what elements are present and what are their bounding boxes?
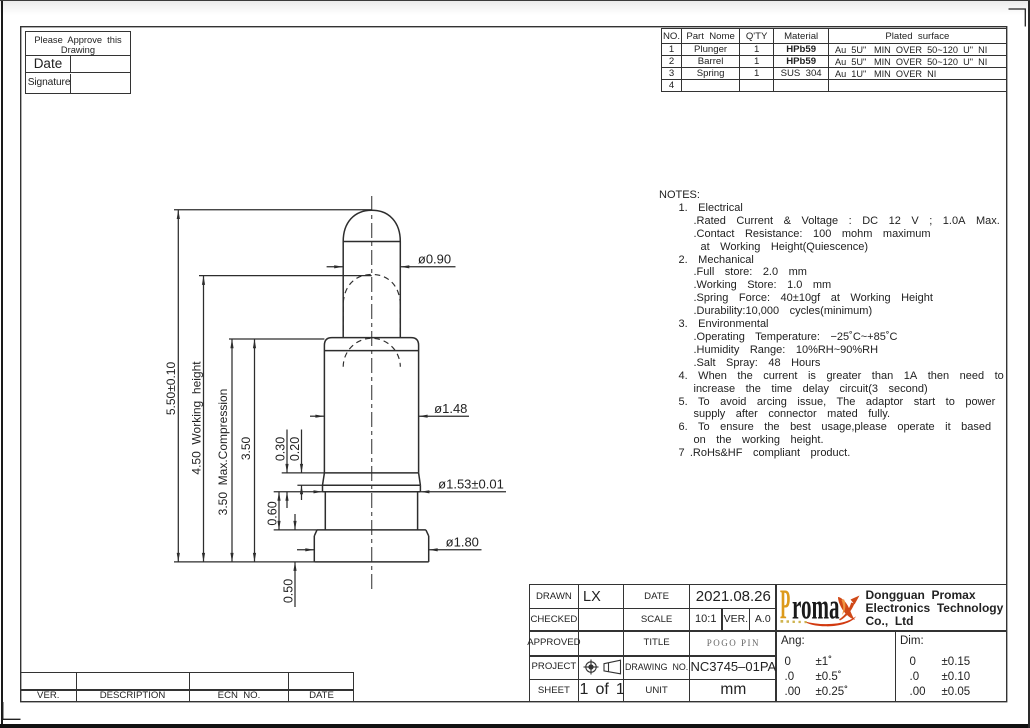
dia 1.48 leader right bbox=[419, 415, 469, 417]
arrow 5.50 bottom bbox=[177, 553, 180, 562]
lower body right side bbox=[417, 492, 419, 530]
arrow 0.50 down bbox=[293, 521, 296, 530]
arrow 0.60 down bbox=[277, 521, 280, 530]
extension line pin top bbox=[174, 209, 372, 211]
company name bbox=[866, 589, 1008, 628]
corner mark bottom-left bbox=[3, 702, 21, 719]
row labels bbox=[530, 585, 578, 607]
dim line 0.20 upper bbox=[301, 430, 303, 473]
svg-text:3.50 Max.Compression: 3.50 Max.Compression bbox=[216, 389, 230, 516]
revision strip (bottom-left) bbox=[20, 672, 354, 702]
dim line 0.60 bbox=[278, 492, 280, 530]
dim line 4.50 bbox=[203, 276, 205, 562]
arrow dia0.90 left-tip bbox=[400, 265, 409, 268]
barrel crimp line bbox=[324, 350, 418, 352]
dim line 0.30 upper bbox=[286, 430, 288, 473]
approve table (top-left) bbox=[25, 31, 132, 94]
dia 0.90 leader right bbox=[400, 266, 455, 268]
arrow dia0.90 right-tip bbox=[334, 265, 343, 268]
base flange bevel right bbox=[426, 530, 429, 536]
arrow 3.50mc top bbox=[230, 339, 233, 348]
extension line ring top bbox=[297, 484, 322, 486]
dim line 0.20 lower shaft bbox=[301, 485, 303, 500]
red swoosh X inner flame bbox=[842, 599, 846, 615]
plunger left side bbox=[342, 242, 344, 338]
svg-text:3.50: 3.50 bbox=[239, 436, 253, 460]
svg-text:0.20: 0.20 bbox=[288, 437, 302, 461]
svg-text:0.60: 0.60 bbox=[266, 501, 280, 525]
arrow 3.50 bottom bbox=[253, 553, 256, 562]
vertical centerline (dash-dot) bbox=[371, 196, 373, 591]
red swoosh X arrowhead bbox=[851, 596, 860, 605]
arrow dia1.48 right-tip bbox=[315, 415, 324, 418]
Dim tolerance cell bbox=[900, 635, 924, 647]
red swoosh X stroke B shaft bbox=[839, 603, 855, 621]
solder ring top line bbox=[323, 484, 421, 486]
svg-text:5.50±0.10: 5.50±0.10 bbox=[164, 362, 178, 416]
extension line baseline bbox=[174, 561, 314, 563]
arrow 0.30 down bbox=[285, 464, 288, 473]
svg-text:ø1.80: ø1.80 bbox=[446, 535, 479, 550]
plunger right side bbox=[399, 242, 401, 338]
plunger dome tip bbox=[343, 210, 400, 241]
arrow 0.20 down bbox=[300, 464, 303, 473]
arrow 4.50 bottom bbox=[202, 553, 205, 562]
solder ring taper left bbox=[323, 473, 325, 485]
svg-text:ø1.53±0.01: ø1.53±0.01 bbox=[438, 477, 504, 492]
arrow 4.50 top bbox=[202, 276, 205, 285]
Ang tolerance cell bbox=[781, 635, 805, 647]
dim line 3.50 bbox=[254, 339, 256, 562]
arrow dia1.80 left-tip bbox=[429, 548, 438, 551]
outer right edge bbox=[1028, 0, 1029, 728]
base flange right side bbox=[428, 536, 430, 562]
solder ring left edge bbox=[322, 485, 324, 492]
outer left edge bbox=[1, 0, 3, 728]
dim line 5.50 bbox=[177, 210, 179, 562]
barrel taper datum line bbox=[324, 472, 418, 474]
arrow dia1.48 left-tip bbox=[419, 415, 428, 418]
internal grid lines bbox=[578, 585, 579, 701]
plunger tip at max compression (hidden, dashed arc) bbox=[343, 338, 400, 367]
extension line barrel top bbox=[229, 338, 324, 340]
dim line 3.50 max compression bbox=[231, 339, 233, 562]
svg-text:0.30: 0.30 bbox=[274, 437, 288, 461]
arrow 0.30 up bbox=[285, 492, 288, 501]
solder ring taper right bbox=[419, 473, 421, 485]
arrow dia1.80 right-tip bbox=[305, 548, 314, 551]
dim line 0.30 lower shaft bbox=[286, 492, 288, 508]
svg-text:4.50 Working height: 4.50 Working height bbox=[189, 361, 203, 475]
dia 0.90 leader left bbox=[327, 266, 344, 268]
projection symbol in PROJECT cell bbox=[579, 656, 623, 678]
Promax logo bbox=[778, 586, 1006, 629]
lower body left side bbox=[324, 492, 326, 530]
svg-text:0.50: 0.50 bbox=[282, 579, 296, 603]
arrow 0.60 up bbox=[277, 492, 280, 501]
title block (bottom-right) bbox=[529, 584, 1007, 702]
solder ring bottom line bbox=[323, 491, 421, 493]
base flange bevel left bbox=[314, 530, 317, 536]
outer top edge bbox=[0, 0, 1030, 1]
dim line 0.50 upper shaft bbox=[294, 514, 296, 530]
values bbox=[583, 587, 623, 607]
base flange top line bbox=[317, 529, 426, 531]
arrow 0.20 up bbox=[300, 485, 303, 494]
dia 1.80 leader left bbox=[297, 549, 314, 551]
barrel body with rounded top corners bbox=[324, 338, 418, 473]
plunger dome base line bbox=[343, 241, 400, 243]
dia 1.80 leader right bbox=[429, 549, 482, 551]
gold dots bbox=[781, 620, 784, 623]
dia 1.53 leader right bbox=[420, 491, 506, 493]
base flange left side bbox=[313, 536, 315, 562]
extension line ring bottom / dia 1.53 leader left bbox=[274, 491, 323, 493]
extension line working height bbox=[199, 275, 372, 277]
dim line 0.50 lower bbox=[294, 562, 296, 607]
solder ring right edge bbox=[419, 485, 421, 492]
red swoosh X stroke A bbox=[838, 597, 855, 620]
extension line flange top bbox=[274, 529, 317, 531]
svg-text:ø0.90: ø0.90 bbox=[418, 252, 451, 267]
plunger tip at working height (hidden, dashed) bbox=[343, 274, 400, 331]
dia 1.48 leader left bbox=[310, 415, 324, 417]
arrow 0.50 up bbox=[293, 562, 296, 571]
svg-text:ø1.48: ø1.48 bbox=[434, 401, 467, 416]
arrow 3.50mc bottom bbox=[230, 553, 233, 562]
arrow dia1.53 left-tip bbox=[420, 490, 429, 493]
notes block bbox=[659, 189, 1007, 460]
base flange bottom line bbox=[314, 561, 428, 563]
arrow dia1.53 right-tip bbox=[314, 490, 323, 493]
red underline swoosh bbox=[804, 616, 856, 626]
extension line taper datum bbox=[282, 472, 325, 474]
arrow 5.50 top bbox=[177, 210, 180, 219]
arrow 3.50 top bbox=[253, 339, 256, 348]
parts table (top-right) bbox=[661, 28, 1007, 90]
outer bottom edge bbox=[0, 724, 1030, 728]
corner mark top-right bbox=[1009, 9, 1026, 27]
